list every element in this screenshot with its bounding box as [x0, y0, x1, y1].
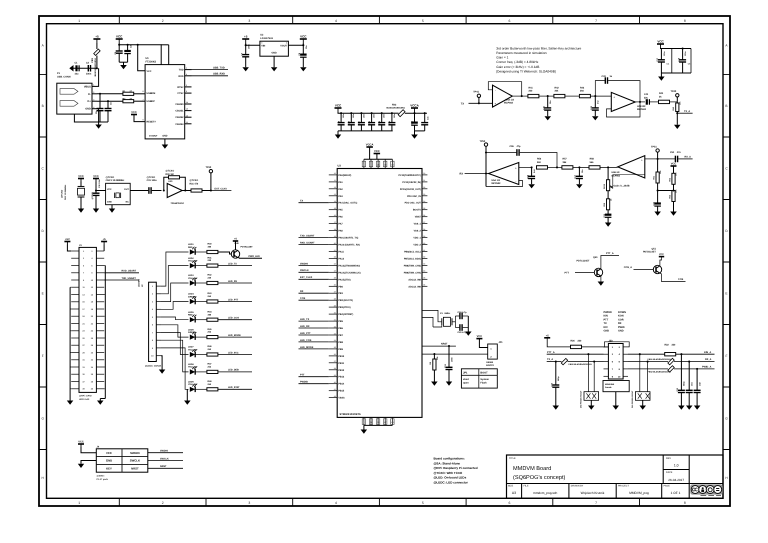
svg-text:@LEDC: LED connector: @LEDC: LED connector: [434, 481, 469, 485]
resistor R40 360: [207, 243, 218, 254]
capacitor C11 100n (VCC rail): [358, 112, 366, 131]
power flag +5V (RPi header): [64, 241, 70, 243]
ground (C53): [678, 406, 685, 410]
svg-text:PA13(JTMS/SWDIO): PA13(JTMS/SWDIO): [338, 264, 360, 267]
svg-text:RED: RED: [188, 314, 193, 317]
LED D47 YELLOW: [188, 363, 207, 375]
svg-text:PA12: PA12: [338, 257, 344, 260]
svg-text:@TCXO: @TCXO: [61, 189, 64, 198]
capacitor C9 100n (VCC rail): [337, 112, 345, 131]
resistor R22 330 (KIN_A): [628, 344, 715, 356]
svg-text:18: 18: [334, 228, 336, 231]
svg-text:Q50: Q50: [593, 256, 598, 259]
wire RX_A input net: [645, 156, 691, 160]
svg-text:D50 PESD5V0S2UT: D50 PESD5V0S2UT: [580, 390, 583, 408]
svg-text:MINIDIN6: MINIDIN6: [605, 383, 615, 386]
svg-text:15: 15: [334, 207, 336, 210]
svg-text:3rd order Butterworth low-pass: 3rd order Butterworth low-pass filter, S…: [496, 46, 581, 50]
svg-text:R41: R41: [529, 86, 534, 89]
wire RPi RXD (pin 10) net TXD_USART: [104, 277, 139, 280]
LED D40 RED: [188, 243, 207, 255]
wire VBUS to +5 node: [97, 68, 99, 86]
wire U2 VOUT to VCC: [288, 43, 303, 45]
capacitor C19 4.7p: [455, 311, 468, 327]
transistor Q50 PDTC114ET (PTT driver): [564, 252, 619, 281]
capacitor C20 4.7p: [455, 324, 468, 334]
TVS diode D51 PESD5V0 (KIN/RX): [631, 353, 650, 408]
ground (C41): [545, 116, 552, 120]
LED D45 GREEN: [188, 328, 207, 340]
svg-text:E: E: [725, 291, 727, 295]
svg-text:TX_A: TX_A: [684, 110, 690, 113]
svg-text:41: 41: [423, 249, 425, 252]
svg-text:19: 19: [334, 235, 336, 238]
svg-text:Flash: Flash: [480, 382, 487, 385]
svg-text:DOWN: DOWN: [618, 311, 626, 314]
capacitor C18 100n (U4): [677, 47, 691, 73]
svg-text:-: -: [515, 180, 516, 183]
svg-text:R44: R44: [659, 92, 664, 95]
svg-text:TXD_USART: TXD_USART: [300, 234, 315, 237]
wire net LED_COS: [218, 317, 252, 320]
wire net SWCLK (MCU): [299, 269, 329, 272]
svg-text:FB51 BLM18AG601SN1: FB51 BLM18AG601SN1: [648, 358, 672, 361]
ground (LED row 9): [184, 389, 191, 404]
svg-text:RX: RX: [300, 290, 304, 293]
resistor R56 2k0: [537, 158, 562, 169]
svg-text:GND: GND: [271, 52, 277, 55]
svg-text:KIN_A: KIN_A: [704, 351, 711, 354]
wire net SWDIO (MCU): [299, 262, 329, 265]
svg-text:PA3: PA3: [338, 195, 343, 198]
resistor R58 5k6: [589, 158, 618, 169]
capacitor C12 100n (VCC rail): [368, 112, 376, 131]
svg-text:CBUS3: CBUS3: [175, 123, 184, 126]
svg-text:VSS_2: VSS_2: [414, 230, 422, 233]
capacitor C52 10u (bias decouple): [652, 191, 661, 212]
wire VCC to SWD: [81, 447, 96, 453]
svg-text:VBAT: VBAT: [415, 216, 422, 219]
svg-text:VCC: VCC: [78, 441, 84, 444]
svg-text:36: 36: [334, 353, 336, 356]
svg-text:VOUT: VOUT: [280, 44, 287, 47]
svg-text:39: 39: [334, 374, 336, 377]
svg-text:Gain error (> 3kHz) = +/-0.1dB: Gain error (> 3kHz) = +/-0.1dB: [496, 65, 539, 69]
ground (C57): [576, 184, 583, 188]
svg-text:PB6: PB6: [338, 327, 343, 330]
svg-text:MCP602: MCP602: [637, 108, 647, 111]
svg-text:@TCXO: @TCXO: [190, 179, 199, 182]
svg-text:Gain: 0...20dB: Gain: 0...20dB: [614, 185, 630, 188]
wire SWDIO net: [148, 450, 183, 453]
svg-text:PB14: PB14: [338, 383, 344, 386]
svg-text:B: B: [725, 104, 727, 108]
svg-text:3: 3: [248, 19, 250, 23]
svg-text:PA8: PA8: [338, 230, 343, 233]
ferrite bead FB52 (PWID line): [628, 366, 715, 374]
connector J50 shield: [603, 381, 629, 406]
svg-text:PD1 OSC_OUT: PD1 OSC_OUT: [405, 202, 422, 205]
svg-text:USB_RXD: USB_RXD: [213, 73, 225, 76]
wire TX input: [461, 102, 493, 105]
ground (R45): [674, 125, 681, 129]
svg-text:22u: 22u: [644, 96, 649, 99]
svg-text:100n: 100n: [663, 51, 666, 56]
svg-text:8: 8: [142, 90, 143, 93]
svg-text:32: 32: [334, 325, 336, 328]
ground (USB shield and caps): [74, 109, 108, 129]
svg-text:SWCLK: SWCLK: [160, 457, 169, 460]
TVS diode D50 PESD5V0 (PTT/TX): [580, 354, 599, 408]
MCU left pins: [329, 172, 361, 399]
svg-text:KEY: KEY: [106, 466, 112, 470]
svg-text:29: 29: [334, 304, 336, 307]
svg-text:TX_A: TX_A: [547, 358, 553, 361]
svg-text:BOOT0: BOOT0: [413, 209, 422, 212]
resistor R41 220: [207, 256, 218, 267]
ferrite bead FB50 (TX_A line): [547, 358, 604, 366]
svg-text:35: 35: [423, 207, 425, 210]
svg-text:GND: GND: [85, 108, 91, 111]
svg-text:PTT: PTT: [300, 374, 305, 377]
svg-text:8MHz: 8MHz: [445, 312, 452, 315]
svg-text:CBUS0: CBUS0: [175, 103, 184, 106]
op-amp U5A MCP602 (RX output buffer): [489, 163, 519, 186]
svg-text:12: 12: [186, 114, 188, 117]
svg-text:VCC: VCC: [335, 104, 342, 108]
svg-text:PA4 (DAC_OUT1): PA4 (DAC_OUT1): [338, 202, 357, 205]
svg-text:39: 39: [423, 235, 425, 238]
svg-text:Gain = 1: Gain = 1: [496, 56, 508, 60]
svg-text:31: 31: [423, 179, 425, 182]
MCU bottom ground pins: [362, 417, 394, 429]
LED D44 RED: [188, 311, 207, 323]
svg-text:U5A 1/2: U5A 1/2: [492, 179, 501, 182]
svg-text:C55: C55: [510, 145, 515, 148]
svg-text:26: 26: [334, 284, 336, 287]
svg-text:8: 8: [684, 501, 686, 505]
svg-text:2: 2: [186, 84, 187, 87]
svg-text:LED_PTT: LED_PTT: [300, 332, 311, 335]
power flag VCC (MCU decoupling): [657, 43, 664, 45]
capacitor C42 2n2 (to gnd): [590, 95, 600, 116]
ground (C54): [686, 406, 693, 410]
svg-text:R31 470: R31 470: [190, 182, 199, 185]
resistor R48 2k2: [207, 380, 218, 391]
svg-text:2: 2: [162, 501, 164, 505]
svg-text:LED4: LED4: [188, 293, 194, 296]
svg-text:TITLE: TITLE: [509, 457, 516, 460]
svg-text:74AHC1G04: 74AHC1G04: [171, 202, 185, 205]
svg-text:PB9: PB9: [338, 348, 343, 351]
svg-text:open: open: [463, 382, 469, 385]
svg-text:34: 34: [334, 339, 336, 342]
test point TP41: [473, 91, 480, 105]
svg-text:FB2: FB2: [392, 103, 397, 106]
power flag VCC (FT230X): [116, 38, 123, 40]
svg-text:23: 23: [334, 263, 336, 266]
svg-text:1: 1: [78, 501, 80, 505]
capacitor C3 100n (VCC): [114, 44, 123, 62]
resistor R44 360: [207, 310, 218, 321]
wire BOOT0 (MCU): [422, 353, 488, 355]
svg-text:PB8(TIM4_CH3): PB8(TIM4_CH3): [404, 264, 421, 267]
capacitor C4 4.7u (VCC): [124, 44, 132, 62]
wire PTT_A to J50: [547, 351, 604, 355]
svg-text:C51: C51: [670, 151, 675, 154]
pin function table (J50): [604, 311, 627, 333]
svg-text:C16: C16: [426, 117, 429, 120]
wire +5 to U2 VIN: [246, 43, 260, 45]
svg-text:F: F: [42, 354, 44, 358]
svg-text:PB12: PB12: [338, 369, 344, 372]
svg-text:EXT_CLK0: EXT_CLK0: [300, 276, 313, 279]
svg-text:LED_COS: LED_COS: [300, 339, 312, 342]
svg-text:C9: C9: [337, 121, 340, 123]
test point TP40: [671, 90, 680, 102]
svg-text:@TCXO: @TCXO: [147, 176, 156, 179]
svg-text:C43: C43: [602, 75, 607, 78]
ground (crystal caps): [465, 316, 472, 336]
transistor Q51 PDTA114ET (COS): [624, 248, 686, 282]
crystal X1 8MHz: [433, 312, 455, 327]
wire net COS (MCU): [299, 297, 329, 300]
svg-text:RX: RX: [618, 322, 622, 325]
wire +5V to pin1: [67, 245, 71, 252]
svg-text:USB_TXD: USB_TXD: [213, 66, 225, 69]
svg-text:JP1: JP1: [499, 341, 504, 344]
capacitor C15 10u (VCCA): [411, 112, 418, 131]
svg-text:ADC12_IN8: ADC12_IN8: [408, 278, 421, 281]
resistor R43 2k0: [579, 86, 611, 98]
wire net LED_PTT: [218, 298, 252, 301]
power flag +5 (regulator input): [242, 38, 249, 40]
transistor Q40 PDTA114ET (power LED): [218, 238, 262, 259]
svg-text:13: 13: [186, 108, 188, 111]
svg-text:GND: GND: [107, 201, 112, 204]
svg-text:R43: R43: [580, 86, 585, 89]
MCU right pins (stubs): [399, 172, 428, 288]
power flag +5 (RPi header right): [101, 241, 107, 243]
svg-text:26-04-2017: 26-04-2017: [668, 478, 684, 482]
MCU U3 STM32F103CBT6: [337, 164, 422, 417]
ground (D50): [588, 406, 595, 410]
svg-text:(SQ6POG's concept): (SQ6POG's concept): [513, 474, 565, 481]
svg-text:22: 22: [334, 256, 336, 259]
svg-text:VCC: VCC: [300, 35, 307, 39]
CC BY-SA license icons: [690, 484, 722, 495]
svg-text:LED6: LED6: [188, 328, 194, 331]
wire D+ line: [97, 100, 123, 102]
svg-text:3: 3: [261, 42, 262, 45]
svg-text:3V3OUT: 3V3OUT: [149, 135, 158, 138]
svg-text:LED_DEB: LED_DEB: [228, 369, 239, 372]
wire net LED_COS (MCU): [299, 339, 329, 342]
svg-text:38: 38: [423, 228, 425, 231]
svg-text:VCC: VCC: [93, 175, 99, 178]
svg-text:13: 13: [334, 193, 336, 196]
svg-text:C13: C13: [378, 121, 381, 124]
svg-text:BLM18AG601SN1: BLM18AG601SN1: [94, 57, 97, 76]
svg-text:6: 6: [186, 90, 187, 93]
svg-text:CBUS2: CBUS2: [175, 116, 184, 119]
wire RXD to USB_RXD: [192, 73, 229, 76]
wire D- line: [97, 93, 123, 95]
power flag VCC (BOOT0 jumper): [476, 338, 482, 340]
svg-text:FB50 BLM18AG601SN1: FB50 BLM18AG601SN1: [569, 363, 593, 366]
svg-text:COS_A: COS_A: [624, 266, 633, 269]
ground (C30): [93, 209, 99, 213]
ground (C42): [592, 116, 599, 120]
svg-text:R22: R22: [665, 344, 670, 347]
svg-text:VDD_2: VDD_2: [413, 244, 421, 247]
svg-text:27: 27: [334, 291, 336, 294]
svg-text:MCP602: MCP602: [504, 102, 514, 105]
svg-text:C12: C12: [368, 121, 371, 124]
wire RX output (to MCU): [460, 173, 489, 176]
VCC rail with decoupling caps: [338, 112, 393, 113]
capacitor C16 100n (VCCA): [421, 112, 429, 131]
wire net RX (MCU): [299, 290, 329, 293]
svg-text:PB15: PB15: [338, 390, 344, 393]
svg-text:KIN: KIN: [604, 315, 609, 318]
filter design note text: [496, 46, 581, 73]
svg-text:21: 21: [334, 249, 336, 252]
svg-text:PA10 (USART1_RX): PA10 (USART1_RX): [338, 244, 360, 247]
svg-text:LED9: LED9: [188, 381, 194, 384]
wire net LED_TX: [218, 262, 252, 265]
ground (U1 GND pin): [162, 139, 169, 149]
ground (R3): [431, 382, 438, 386]
svg-text:PDTA114ET: PDTA114ET: [241, 245, 254, 248]
svg-text:43: 43: [423, 263, 425, 266]
svg-text:-: -: [614, 108, 615, 111]
svg-text:LED_COS: LED_COS: [228, 317, 239, 320]
test point TP30: [206, 166, 213, 192]
svg-text:PWID: PWID: [618, 326, 625, 329]
svg-text:mmdvm_pog.sch: mmdvm_pog.sch: [533, 491, 557, 495]
ground (D51): [640, 406, 647, 410]
svg-text:33: 33: [423, 193, 425, 196]
svg-text:USBDM: USBDM: [147, 92, 156, 95]
crystal DS1 12.288MHz (@TCXO alt): [61, 182, 85, 209]
svg-text:47p: 47p: [517, 145, 522, 148]
ground (DS1): [78, 209, 84, 213]
svg-text:C10: C10: [348, 121, 351, 124]
svg-text:47n: 47n: [677, 151, 682, 154]
svg-text:PB9(TIM4_CH4): PB9(TIM4_CH4): [404, 271, 421, 274]
svg-text:RXD_USART: RXD_USART: [122, 270, 137, 273]
svg-text:female: female: [605, 386, 612, 389]
svg-text:100n: 100n: [248, 44, 251, 49]
capacitor C55 47p (U5A feedback): [486, 145, 558, 169]
svg-text:VCC: VCC: [657, 40, 664, 44]
ground (VCCA caps): [411, 131, 425, 139]
svg-text:VCC: VCC: [78, 175, 84, 178]
wire net LED_SVC: [218, 351, 252, 354]
capacitor C51 47n (RX in coupling): [670, 151, 693, 162]
LED D46 YELLOW: [188, 346, 207, 358]
ground (C58): [694, 406, 701, 410]
ground (R53): [670, 212, 677, 216]
table JP1/BOOT modes: [461, 369, 497, 388]
svg-text:C44: C44: [644, 93, 649, 96]
svg-text:RESET#: RESET#: [147, 121, 157, 124]
svg-text:GND: GND: [604, 330, 610, 333]
wire RPi TXD (pin 8) net RXD_USART: [104, 270, 139, 273]
ground (VCC caps): [119, 62, 127, 69]
svg-text:B: B: [42, 104, 44, 108]
svg-text:LED1: LED1: [188, 243, 194, 246]
svg-text:MCP602: MCP602: [492, 182, 502, 185]
svg-text:PROJECT: PROJECT: [618, 485, 629, 488]
svg-text:46: 46: [423, 284, 425, 287]
wire +5 node to caps: [73, 67, 97, 69]
svg-text:FILE: FILE: [524, 485, 529, 488]
svg-text:10: 10: [334, 172, 336, 175]
svg-text:2: 2: [286, 42, 287, 45]
svg-text:PB0: PB0: [338, 285, 343, 288]
power flag VCC (regulator output): [300, 38, 307, 40]
svg-text:VCC: VCC: [147, 70, 152, 73]
resistor R26 220: [547, 338, 608, 349]
svg-text:TP40: TP40: [671, 90, 677, 93]
wire pin2 to +5 loop: [604, 342, 630, 347]
jumper JP1 BOOT0: [479, 339, 503, 367]
svg-text:7: 7: [595, 19, 597, 23]
ferrite bead FB1: [91, 43, 100, 76]
power flag +5 (USB): [93, 38, 100, 40]
svg-text:SWDIO: SWDIO: [160, 450, 168, 453]
capacitor C43 1n (U4B feedback): [595, 75, 640, 102]
MCU top power pins: [362, 147, 394, 169]
svg-text:PA2: PA2: [338, 188, 343, 191]
ground (C52): [654, 212, 661, 216]
svg-text:U4B 2/2: U4B 2/2: [637, 105, 646, 108]
svg-text:VSS_1: VSS_1: [414, 223, 422, 226]
svg-text:VCCA: VCCA: [410, 104, 419, 108]
resistor R45 10k (attenuator): [672, 101, 682, 125]
svg-text:PA11: PA11: [338, 251, 344, 254]
svg-text:@LED: On-board LEDs: @LED: On-board LEDs: [434, 476, 467, 480]
svg-text:E: E: [42, 291, 44, 295]
svg-text:31: 31: [334, 318, 336, 321]
svg-text:LED_TX: LED_TX: [300, 318, 310, 321]
test point TP50: [480, 140, 488, 187]
ground (U2 GND): [271, 56, 278, 71]
svg-text:Board configurations:: Board configurations:: [434, 457, 465, 461]
resistor R43 2k2: [207, 292, 218, 303]
svg-text:NC: NC: [126, 201, 130, 204]
svg-text:-: -: [495, 89, 496, 92]
svg-text:PA5: PA5: [338, 209, 343, 212]
svg-text:VSSA: VSSA: [338, 397, 345, 400]
capacitor C17 100n (U3): [656, 48, 691, 73]
svg-text:36: 36: [423, 214, 425, 217]
connector J50 2x5: [604, 340, 629, 380]
svg-text:VCC: VCC: [659, 253, 664, 256]
svg-text:TXD_USART: TXD_USART: [122, 277, 137, 280]
svg-text:100n: 100n: [86, 73, 92, 76]
svg-text:FB1: FB1: [91, 57, 94, 62]
svg-text:R42: R42: [555, 86, 560, 89]
svg-text:PTT_A: PTT_A: [606, 252, 614, 255]
wire net LED_PTT (MCU): [299, 332, 329, 335]
wire net TXD_USART (MCU): [299, 234, 329, 237]
svg-text:RX_A: RX_A: [705, 358, 712, 361]
svg-text:35: 35: [334, 346, 336, 349]
svg-text:TX: TX: [300, 200, 303, 203]
